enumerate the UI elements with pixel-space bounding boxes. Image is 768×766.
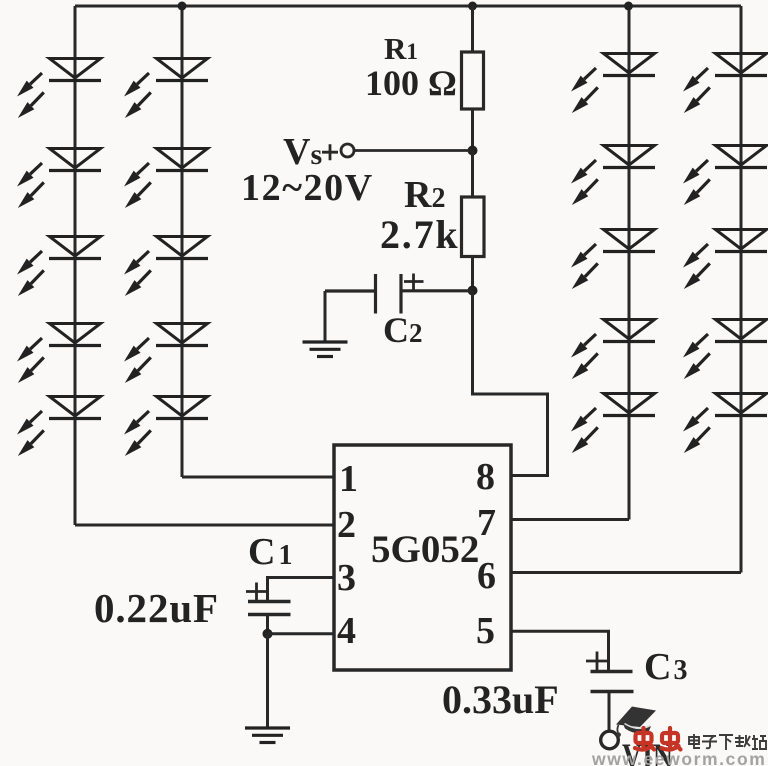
wire: pin 1 lead from column 2	[182, 476, 334, 479]
LED D2 (col1 row2)	[17, 149, 101, 209]
capacitor C2	[325, 274, 472, 314]
wire: C3 to VIN terminal	[608, 692, 611, 733]
LED D11 (col3 row1)	[571, 54, 655, 114]
LED D7 (col2 row2)	[124, 149, 208, 209]
wire: pin 4 lead	[268, 632, 335, 635]
wire: R2 to C2 node	[471, 257, 474, 291]
node: bus junction at column 2	[178, 2, 187, 11]
LED D14 (col3 row4)	[571, 320, 655, 380]
node: C1 / pin 4 junction	[263, 629, 273, 639]
polarity + of C3	[586, 652, 608, 672]
node: bus junction at column 3	[624, 2, 633, 11]
node: bus junction at R1	[468, 2, 477, 11]
svg-text:C2: C2	[383, 310, 423, 350]
svg-text:2: 2	[337, 504, 356, 546]
capacitor C1	[248, 602, 291, 615]
wire: C2 node to pin 8	[473, 291, 548, 476]
node: Vs junction	[468, 146, 478, 156]
ground (C2)	[303, 342, 348, 357]
terminal: VIN circle	[601, 731, 619, 749]
polarity + at Vs	[322, 144, 338, 160]
wire: Vs terminal lead	[354, 149, 473, 152]
svg-text:0.22uF: 0.22uF	[94, 585, 219, 631]
LED D9 (col2 row4)	[124, 324, 208, 384]
wire: C2 left plate to ground	[324, 291, 327, 342]
wire: C1 node to ground	[266, 634, 269, 728]
LED D15 (col3 row5)	[571, 394, 655, 454]
logo: gray characters dianzi xiazaizhan	[689, 734, 766, 750]
svg-text:www.eeworm.com: www.eeworm.com	[591, 749, 766, 766]
wire: LED column 2	[181, 6, 184, 477]
LED D12 (col3 row2)	[571, 146, 655, 206]
LED D19 (col4 row4)	[683, 320, 767, 380]
LED D13 (col3 row3)	[571, 230, 655, 290]
svg-text:6: 6	[477, 555, 496, 597]
svg-text:12~20V: 12~20V	[241, 167, 374, 209]
svg-text:3: 3	[337, 557, 356, 599]
wire: LED column 3	[628, 6, 631, 520]
logo: red character chong 2	[662, 728, 681, 750]
resistor R2	[462, 197, 485, 257]
svg-text:100 Ω: 100 Ω	[365, 63, 457, 103]
LED D4 (col1 row4)	[17, 324, 101, 384]
wire: bus to R1	[471, 6, 474, 52]
logo: graduation cap board	[616, 707, 656, 728]
LED D1 (col1 row1)	[17, 59, 101, 119]
LED D5 (col1 row5)	[17, 397, 101, 457]
wire: LED column 1	[74, 6, 77, 525]
wire: C1 to junction	[266, 615, 269, 635]
wire: pin 7 lead from column 3	[511, 518, 629, 521]
svg-text:R1: R1	[384, 31, 418, 66]
resistor R1	[462, 52, 484, 109]
logo: graduation cap body	[623, 723, 652, 734]
logo: cap highlight arc	[625, 724, 651, 729]
LED D18 (col4 row3)	[683, 230, 767, 290]
wire: top supply bus	[75, 5, 741, 8]
wire: pin 5 to C3	[511, 631, 609, 671]
LED D20 (col4 row5)	[683, 394, 767, 454]
svg-text:8: 8	[476, 456, 495, 498]
svg-text:1: 1	[339, 458, 358, 500]
terminal: Vs circle	[341, 144, 354, 157]
logo: tassel	[617, 725, 618, 733]
LED D8 (col2 row3)	[124, 237, 208, 297]
LED D3 (col1 row3)	[17, 237, 101, 297]
wire: Vs node to R2	[471, 151, 474, 198]
svg-text:R2: R2	[404, 174, 445, 216]
svg-text:4: 4	[337, 610, 356, 652]
svg-text:0.33uF: 0.33uF	[442, 677, 559, 722]
wire: pin 6 lead from column 4	[511, 571, 741, 574]
svg-text:7: 7	[477, 502, 496, 544]
logo: tassel knob	[616, 732, 621, 737]
svg-text:5: 5	[476, 610, 495, 652]
wire: pin 2 lead from column 1	[75, 524, 334, 527]
LED D16 (col4 row1)	[683, 54, 767, 114]
LED D10 (col2 row5)	[124, 397, 208, 457]
svg-text:5G052: 5G052	[371, 528, 479, 571]
svg-text:C1: C1	[248, 531, 292, 573]
svg-text:C3: C3	[644, 646, 687, 688]
polarity + of C1	[246, 583, 266, 601]
node: C2 junction	[468, 286, 478, 296]
wire: LED column 4	[740, 6, 743, 573]
ground (C1)	[245, 728, 290, 743]
logo: red character chong 1	[635, 728, 654, 750]
IC U1 5G052	[334, 445, 511, 670]
LED D6 (col2 row1)	[124, 59, 208, 119]
LED D17 (col4 row2)	[683, 146, 767, 206]
wire: pin 3 to C1	[268, 578, 335, 602]
capacitor C3	[591, 672, 634, 692]
wire: R1 to Vs node	[471, 109, 474, 151]
svg-text:2.7k: 2.7k	[380, 212, 459, 257]
polarity + of C2	[404, 274, 424, 290]
